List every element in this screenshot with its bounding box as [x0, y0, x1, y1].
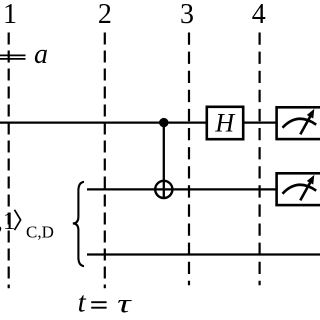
wire A segment H to meter [244, 121, 276, 123]
svg-text:τ: τ [117, 288, 133, 318]
svg-text:3: 3 [180, 0, 194, 30]
label t = tau [78, 287, 133, 319]
gate H box U1 [207, 107, 243, 139]
ket label ,1&gt; C,D [0, 206, 54, 242]
CNOT target [155, 181, 172, 198]
svg-text:4: 4 [252, 0, 266, 30]
svg-text:H: H [214, 109, 235, 138]
svg-text:1: 1 [3, 0, 17, 30]
svg-text:2: 2 [98, 0, 112, 30]
svg-text:,1: ,1 [0, 206, 16, 235]
time-slice dashed line 1 [8, 33, 10, 289]
svg-text:C,D: C,D [26, 223, 54, 242]
classical double wire a [0, 55, 26, 59]
svg-text:a: a [34, 39, 48, 70]
wire control-target vertical [163, 123, 165, 199]
brace [73, 182, 84, 266]
control dot [159, 118, 168, 127]
wire B [87, 188, 276, 190]
measurement M2 [277, 173, 320, 205]
wire C [87, 253, 320, 255]
measurement M1 [277, 107, 320, 139]
time-slice dashed line 4 [259, 33, 261, 286]
time-slice dashed line 2 [104, 33, 106, 289]
time-slice dashed line 3 [188, 33, 190, 286]
wire A left segment [0, 121, 206, 123]
svg-text:t: t [78, 287, 87, 319]
